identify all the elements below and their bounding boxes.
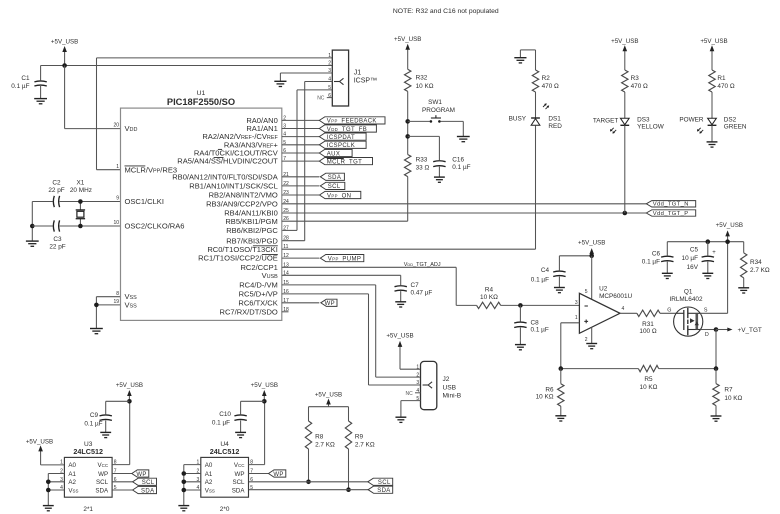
svg-text:BUSY: BUSY	[509, 115, 527, 122]
svg-text:100 Ω: 100 Ω	[639, 328, 656, 335]
svg-text:24LC512: 24LC512	[73, 447, 103, 456]
wire RC0 row	[282, 248, 536, 250]
svg-text:C5: C5	[690, 247, 699, 254]
resistor R1	[709, 70, 735, 92]
net flag WP (RC6)	[321, 299, 337, 307]
ground C1	[34, 99, 47, 104]
power +5V_USB (C9)	[116, 382, 143, 404]
wire to R7	[715, 369, 717, 384]
svg-text:5: 5	[585, 289, 588, 295]
svg-text:DS2: DS2	[724, 116, 737, 123]
svg-text:1: 1	[328, 53, 331, 59]
power +5V_USB (R8/R9)	[315, 391, 342, 406]
svg-text:RC7/RX/DT/SDO: RC7/RX/DT/SDO	[220, 307, 278, 316]
wire U1 pin 7	[282, 160, 320, 162]
svg-text:2: 2	[416, 372, 419, 378]
svg-text:2: 2	[585, 337, 588, 343]
svg-text:C2: C2	[52, 180, 61, 187]
wire R8/R9 rail	[309, 407, 349, 421]
wire U2 IN+ to R5/R6 node	[561, 323, 580, 369]
svg-text:R2: R2	[542, 75, 551, 82]
svg-text:27: 27	[283, 225, 289, 231]
svg-text:24LC512: 24LC512	[210, 447, 240, 456]
svg-text:WP: WP	[136, 472, 146, 478]
capacitor C8	[514, 320, 549, 345]
wire to C10	[241, 401, 265, 414]
wire U3 Vcc	[112, 401, 130, 464]
svg-text:+5V_USB: +5V_USB	[315, 391, 342, 398]
net flag WP (U4)	[249, 470, 286, 478]
svg-text:10 KΩ: 10 KΩ	[640, 384, 658, 391]
capacitor C10	[212, 411, 247, 432]
svg-text:+5V_USB: +5V_USB	[578, 239, 605, 246]
svg-text:USB: USB	[443, 384, 457, 391]
wire U1 pin 17	[282, 302, 320, 304]
svg-text:A0: A0	[205, 462, 213, 469]
svg-text:R6: R6	[545, 386, 554, 393]
wire drain to R5/R7 node	[715, 330, 717, 369]
ground C6	[662, 273, 673, 278]
svg-text:DS1: DS1	[548, 116, 561, 123]
ground C8	[515, 345, 526, 350]
capacitor C7	[395, 282, 433, 302]
wire U2 out	[620, 312, 637, 314]
power +5V_USB (R1)	[700, 38, 727, 70]
svg-text:A0: A0	[68, 462, 76, 469]
net flag WP (U3)	[112, 470, 149, 478]
svg-text:U2: U2	[599, 285, 608, 292]
svg-text:0.1 µF: 0.1 µF	[642, 258, 660, 265]
connector J1 ICSP	[317, 50, 377, 106]
svg-text:4: 4	[622, 306, 625, 312]
ground U3	[43, 506, 54, 511]
svg-text:RB2/AN8/INT2/VMO: RB2/AN8/INT2/VMO	[209, 191, 278, 200]
power +5V_USB (C5 rail)	[716, 222, 743, 242]
svg-text:+5V_USB: +5V_USB	[251, 382, 278, 389]
svg-text:10 KΩ: 10 KΩ	[480, 294, 498, 301]
svg-text:J2: J2	[443, 376, 450, 383]
wire R9 to SDA	[346, 449, 351, 492]
svg-text:PIC18F2550/SO: PIC18F2550/SO	[167, 97, 235, 107]
wire U1 pin 22	[282, 185, 320, 187]
net flag Vdd_TGT_N	[646, 201, 695, 208]
svg-text:2.7 KΩ: 2.7 KΩ	[750, 267, 770, 274]
capacitor C5 10uF	[682, 242, 717, 273]
wire U2 pin5	[559, 254, 594, 300]
wire U1 pin 5	[282, 144, 320, 146]
svg-text:J1: J1	[354, 70, 362, 77]
svg-text:X1: X1	[76, 180, 84, 187]
svg-text:R1: R1	[717, 75, 726, 82]
svg-text:2.7 KΩ: 2.7 KΩ	[315, 441, 335, 448]
svg-text:SDA: SDA	[328, 175, 341, 181]
resistor R2	[532, 70, 559, 92]
wire to R6	[560, 369, 562, 384]
svg-text:YELLOW: YELLOW	[637, 124, 665, 131]
svg-text:ICSPDAT: ICSPDAT	[327, 135, 355, 141]
wire U1 pin 21	[282, 176, 320, 178]
svg-text:DS3: DS3	[637, 116, 650, 123]
svg-text:C6: C6	[652, 250, 661, 257]
svg-text:GREEN: GREEN	[724, 124, 747, 131]
svg-text:RC1/T1OSI/CCP2/UOE: RC1/T1OSI/CCP2/UOE	[198, 254, 278, 263]
svg-text:C10: C10	[219, 411, 231, 418]
svg-text:2*1: 2*1	[83, 506, 93, 513]
wire R8 to SCL	[306, 449, 311, 484]
wire R1 to DS2	[711, 92, 713, 118]
svg-text:RC4/D-/VM: RC4/D-/VM	[239, 281, 278, 290]
svg-text:NC: NC	[317, 96, 325, 102]
svg-text:Vdd_TGT_P: Vdd_TGT_P	[653, 211, 689, 217]
power +5V_USB (R3)	[611, 38, 638, 70]
wire gnd to R2	[535, 50, 537, 70]
wire J1 pin1 to MCLR	[97, 58, 333, 170]
svg-text:R4: R4	[485, 286, 494, 293]
ground J2	[395, 417, 406, 422]
svg-text:AUX: AUX	[327, 151, 340, 157]
svg-text:28: 28	[283, 236, 289, 242]
ground VSS	[90, 329, 103, 334]
capacitor C2	[48, 180, 64, 208]
svg-text:A1: A1	[68, 471, 76, 478]
U1 left pin labels	[113, 123, 184, 310]
wire U2 pin2 gnd	[591, 327, 593, 343]
wire VDD_TGT_ADJ (RC2)	[282, 262, 477, 305]
wire R5 right	[659, 366, 719, 371]
svg-text:SCL: SCL	[96, 479, 109, 486]
svg-text:6: 6	[250, 477, 253, 483]
svg-text:A1: A1	[205, 471, 213, 478]
svg-text:10 µF: 10 µF	[682, 255, 699, 262]
ground R34	[738, 288, 749, 293]
wire VDD pin20	[65, 66, 121, 129]
svg-text:+: +	[712, 250, 716, 256]
svg-text:10 KΩ: 10 KΩ	[416, 83, 434, 90]
svg-text:MCP6001U: MCP6001U	[599, 293, 632, 300]
svg-text:+5V_USB: +5V_USB	[386, 332, 413, 339]
svg-text:Mini-B: Mini-B	[443, 392, 462, 399]
power +5V_USB (C1/VDD)	[51, 39, 78, 66]
svg-text:0.1 µF: 0.1 µF	[452, 164, 470, 171]
net flag SCL (bus)	[368, 478, 393, 486]
LED DS3 YELLOW (TARGET)	[593, 116, 665, 133]
svg-text:+5V_USB: +5V_USB	[700, 38, 727, 45]
ground C16	[434, 177, 445, 182]
LED DS1 RED (BUSY)	[509, 103, 563, 130]
capacitor C16	[433, 156, 470, 177]
net flag AUX	[319, 149, 352, 157]
net flag SCL (RB1)	[320, 182, 345, 190]
net flag SCL (U3)	[112, 478, 156, 486]
wire Vdd_TGT_P (RB4)	[282, 211, 647, 216]
svg-text:ICSP™: ICSP™	[354, 78, 377, 85]
net flag VPP_ON	[320, 191, 361, 199]
wire DS2 to gnd	[711, 125, 713, 141]
svg-text:VCC: VCC	[234, 462, 245, 469]
svg-text:0.47 µF: 0.47 µF	[411, 290, 433, 297]
switch SW1 PROGRAM	[408, 99, 464, 123]
wire R2 to DS1	[535, 92, 537, 118]
net flag Vdd_TGT_P	[646, 210, 695, 217]
svg-text:R5: R5	[644, 376, 653, 383]
wire D- (RC4 to J2)	[282, 285, 421, 377]
svg-text:SDA: SDA	[377, 488, 390, 494]
svg-text:Vdd_TGT_N: Vdd_TGT_N	[653, 202, 689, 208]
svg-text:1: 1	[416, 364, 419, 370]
power +5V_USB (U3 A0)	[26, 438, 65, 465]
resistor R8	[305, 421, 335, 449]
svg-text:VCC: VCC	[97, 462, 108, 469]
svg-text:C4: C4	[541, 267, 550, 274]
wire U1 pin 6	[282, 152, 320, 154]
svg-text:RB3/AN9/CCP2/VPO: RB3/AN9/CCP2/VPO	[206, 199, 278, 208]
svg-text:C9: C9	[90, 412, 99, 419]
svg-text:R32: R32	[416, 74, 428, 81]
ground C4	[554, 288, 565, 293]
svg-text:0.1 µF: 0.1 µF	[531, 327, 549, 334]
svg-text:SW1: SW1	[428, 99, 442, 106]
wire Q1 source to +5V	[700, 242, 727, 314]
ground SW1	[457, 137, 470, 142]
svg-text:470 Ω: 470 Ω	[631, 83, 648, 90]
svg-text:22 pF: 22 pF	[48, 187, 64, 194]
svg-text:WP: WP	[98, 471, 108, 478]
transistor Q1 IRLML6402	[667, 288, 709, 338]
svg-text:C8: C8	[531, 320, 540, 327]
svg-text:SCL: SCL	[328, 184, 341, 190]
svg-text:NOTE: R32 and C16 not populate: NOTE: R32 and C16 not populated	[393, 8, 499, 15]
net flag SDA (bus)	[368, 486, 393, 494]
wire U1 pin 23	[282, 194, 320, 196]
svg-text:WP: WP	[325, 301, 335, 307]
svg-text:SCL: SCL	[142, 480, 155, 486]
wire R5 left	[559, 366, 639, 371]
wire SDA bus	[249, 489, 369, 491]
wire D+ (RC5 to J2)	[282, 294, 421, 385]
svg-text:Q1: Q1	[684, 288, 693, 295]
note text	[393, 8, 499, 15]
wire to C4	[558, 256, 560, 270]
resistor R4	[477, 286, 501, 308]
ground U2	[586, 344, 597, 349]
svg-text:0.1 µF: 0.1 µF	[11, 83, 29, 90]
wire to C9	[106, 401, 130, 414]
svg-text:WP: WP	[273, 472, 283, 478]
wire R31 to Q1 gate	[660, 312, 676, 314]
wire SW1 to gnd	[462, 121, 464, 136]
wire crystal left rail	[30, 202, 35, 241]
svg-text:20: 20	[113, 123, 119, 129]
net flag ICSPCLK	[319, 141, 366, 149]
svg-text:C16: C16	[452, 156, 464, 163]
wire VSS pins	[94, 297, 120, 329]
svg-text:1: 1	[575, 315, 578, 321]
ground DS2	[707, 142, 718, 147]
wire ICSPCLK J1 pin5 to RB6	[282, 90, 333, 231]
wire R34 to gnd	[743, 278, 745, 288]
svg-text:9: 9	[116, 196, 119, 202]
svg-text:SCL: SCL	[378, 480, 391, 486]
svg-text:RED: RED	[548, 123, 562, 130]
ground crystal	[26, 241, 39, 246]
svg-text:0.1 µF: 0.1 µF	[212, 419, 230, 426]
wire U3 address pins gnd	[46, 474, 64, 506]
wire to R34	[743, 242, 745, 253]
wire RC7 stub	[282, 311, 289, 313]
svg-text:R9: R9	[355, 434, 364, 441]
svg-text:IRLML6402: IRLML6402	[669, 296, 702, 303]
resistor R34	[741, 253, 770, 278]
net flag MCLR_TGT	[319, 158, 372, 166]
wire U4 address pins gnd	[182, 465, 201, 506]
net flag ICSPDAT	[319, 133, 366, 141]
svg-text:470 Ω: 470 Ω	[717, 83, 734, 90]
svg-text:VSS: VSS	[205, 487, 215, 494]
svg-text:+V_TGT: +V_TGT	[738, 327, 762, 334]
wire OSC2 row	[32, 225, 120, 227]
wire U1 pin 3	[282, 128, 320, 130]
svg-text:R7: R7	[724, 387, 733, 394]
svg-text:R8: R8	[315, 434, 324, 441]
resistor R9	[345, 421, 375, 449]
svg-text:NC: NC	[406, 391, 414, 397]
svg-text:RC6/TX/CK: RC6/TX/CK	[238, 298, 277, 307]
resistor R3	[622, 70, 648, 92]
net flag SDA (RB0)	[320, 173, 344, 181]
svg-text:+5V_USB: +5V_USB	[51, 39, 78, 46]
svg-text:R34: R34	[750, 259, 762, 266]
svg-text:0.1 µF: 0.1 µF	[84, 420, 102, 427]
capacitor C4	[531, 267, 566, 287]
net flag SDA (U3)	[112, 486, 156, 494]
wire DS1 to RC0	[535, 125, 537, 249]
svg-text:C1: C1	[21, 75, 30, 82]
wire +5V rail	[667, 239, 743, 244]
power +5V_USB (J2)	[386, 332, 420, 369]
svg-text:RB6/KBI2/PGC: RB6/KBI2/PGC	[226, 226, 278, 235]
ground C9	[100, 432, 111, 437]
U1 right pin labels	[172, 115, 289, 316]
svg-text:22 pF: 22 pF	[49, 243, 65, 250]
ground DS1	[514, 58, 526, 63]
svg-text:33 Ω: 33 Ω	[416, 164, 430, 171]
svg-text:20 MHz: 20 MHz	[70, 187, 92, 194]
svg-text:RB0/AN12/INT0/FLT0/SDI/SDA: RB0/AN12/INT0/FLT0/SDI/SDA	[172, 172, 279, 181]
svg-text:POWER: POWER	[679, 116, 704, 123]
resistor R31	[637, 310, 660, 335]
connector J2 USB Mini-B	[406, 361, 462, 409]
op IC U1 PIC18F2550/SO	[121, 90, 282, 320]
svg-text:PROGRAM: PROGRAM	[422, 107, 455, 114]
wire SCL bus	[249, 481, 368, 483]
wire J2 pin5 gnd	[401, 401, 421, 417]
svg-text:SCL: SCL	[232, 479, 245, 486]
wire R7 gnd	[715, 406, 717, 416]
ground R6	[555, 416, 566, 421]
svg-text:SDA: SDA	[95, 487, 109, 494]
wire U1 pin 4	[282, 136, 320, 138]
svg-text:2: 2	[328, 61, 331, 67]
svg-text:VSS: VSS	[68, 487, 78, 494]
wire U4 Vcc	[249, 401, 265, 464]
svg-text:5: 5	[250, 485, 253, 491]
power +5V_USB (C10)	[251, 382, 278, 404]
wire Vdd_TGT_N (RB3)	[282, 203, 647, 205]
wire R3 to DS3	[624, 92, 626, 118]
wire R33 to RB5	[282, 177, 408, 222]
wire DS3 to Vdd_TGT_P	[624, 125, 626, 213]
IC U4 24LC512	[197, 441, 254, 513]
svg-text:2.7 KΩ: 2.7 KΩ	[355, 441, 375, 448]
svg-text:6: 6	[328, 93, 331, 99]
svg-text:+5V_USB: +5V_USB	[716, 222, 743, 229]
svg-text:16V: 16V	[687, 264, 699, 271]
wire U1 pin 2	[282, 119, 320, 121]
wire DS1 top gnd	[520, 50, 535, 58]
wire Q1 drain	[701, 327, 719, 332]
power +5V_USB (R32)	[394, 36, 421, 69]
wire R6 gnd	[560, 406, 562, 415]
svg-text:+5V_USB: +5V_USB	[611, 38, 638, 45]
svg-text:SDA: SDA	[141, 488, 154, 494]
svg-text:1: 1	[116, 164, 119, 170]
svg-text:C3: C3	[53, 236, 62, 243]
svg-text:G: G	[667, 308, 671, 314]
svg-text:C7: C7	[411, 282, 420, 289]
crystal X1	[70, 180, 92, 229]
resistor R5	[638, 365, 658, 391]
wire to C8	[519, 305, 521, 321]
svg-text:RC5/D+/VP: RC5/D+/VP	[239, 290, 278, 299]
wire +5V to J1 pin2	[41, 65, 333, 67]
svg-text:RB1/AN10/INT1/SCK/SCL: RB1/AN10/INT1/SCK/SCL	[189, 182, 278, 191]
wire to C6	[666, 242, 668, 256]
op-amp U2 MCP6001U	[575, 285, 633, 343]
resistor R32	[405, 69, 434, 91]
ground U4	[178, 506, 189, 511]
resistor R7	[713, 384, 743, 406]
svg-text:A2: A2	[205, 479, 213, 486]
svg-text:+5V_USB: +5V_USB	[394, 36, 421, 43]
wire R32-R33	[405, 91, 410, 154]
svg-text:10: 10	[113, 220, 119, 226]
capacitor C6	[642, 250, 674, 273]
wire ICSPDAT J1 pin4 to RB7	[282, 82, 333, 241]
svg-text:A2: A2	[68, 479, 76, 486]
svg-text:ICSPCLK: ICSPCLK	[327, 143, 355, 149]
svg-text:VPP_ON: VPP_ON	[327, 193, 351, 199]
svg-text:OSC1/CLKI: OSC1/CLKI	[125, 197, 164, 206]
wire R4 to op-amp IN-	[501, 303, 580, 308]
LED DS2 GREEN (POWER)	[679, 116, 747, 133]
ground R7	[711, 416, 722, 421]
net flag VPP_PUMP	[320, 255, 364, 263]
svg-text:+5V_USB: +5V_USB	[26, 438, 53, 445]
ground C7	[395, 302, 406, 307]
wire VUSB (pin14) to C7	[282, 275, 401, 285]
wire OSC1 row	[32, 201, 120, 203]
svg-text:10 KΩ: 10 KΩ	[536, 394, 554, 401]
resistor R33	[405, 155, 430, 177]
svg-text:3: 3	[575, 300, 578, 306]
svg-text:470 Ω: 470 Ω	[542, 83, 559, 90]
svg-text:WP: WP	[235, 471, 245, 478]
power +5V_USB (U2)	[578, 239, 605, 256]
svg-text:SDA: SDA	[232, 487, 246, 494]
svg-text:D: D	[705, 332, 709, 338]
svg-text:19: 19	[113, 299, 119, 305]
svg-text:2*0: 2*0	[220, 506, 230, 513]
